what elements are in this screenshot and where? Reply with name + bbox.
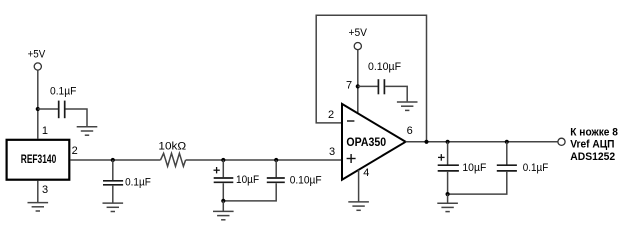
svg-text:0.1µF: 0.1µF xyxy=(50,86,77,98)
wire: tap to C1 left plate xyxy=(38,108,58,110)
+5V terminal (left) xyxy=(34,63,41,70)
wire: stem to C2 xyxy=(112,160,114,180)
svg-text:4: 4 xyxy=(363,167,369,179)
capacitor C6 10uF polarized (output) xyxy=(438,164,459,166)
wire: pin 4 to ground xyxy=(358,170,360,202)
ground G1 xyxy=(77,127,98,135)
svg-text:ADS1252: ADS1252 xyxy=(570,151,615,163)
svg-text:+5V: +5V xyxy=(349,27,368,39)
node: pin 7 bypass tap xyxy=(356,84,360,88)
wire: resistor to op-amp pin 3 xyxy=(186,159,342,161)
wire: stem to C3 xyxy=(222,160,224,177)
wire: stem to C7 xyxy=(506,142,508,165)
ground G3 xyxy=(103,203,124,211)
svg-text:2: 2 xyxy=(72,145,78,157)
ground G7 xyxy=(437,203,458,211)
node: junction at C5 xyxy=(274,158,278,162)
svg-text:10kΩ: 10kΩ xyxy=(158,141,186,153)
capacitor C4 0.10uF (op-amp bypass) xyxy=(377,79,379,94)
capacitor C2 0.1uF xyxy=(103,180,123,182)
wire: C2 bottom to ground xyxy=(112,186,114,203)
ground G6 xyxy=(348,202,369,210)
svg-text:0.1µF: 0.1µF xyxy=(523,162,549,174)
+5V terminal (op-amp) xyxy=(354,43,361,50)
wire: bottom rail to ground xyxy=(447,194,449,203)
op-amp U2 OPA350 xyxy=(342,104,406,180)
svg-text:Vref АЦП: Vref АЦП xyxy=(570,139,614,151)
REF3140 U1 xyxy=(7,140,70,180)
svg-text:+5V: +5V xyxy=(28,48,46,60)
wire: stem to C5 xyxy=(275,160,277,177)
node: feedback junction xyxy=(424,140,428,144)
node: junction at C2 xyxy=(111,158,115,162)
wire: output rail xyxy=(406,141,558,143)
node: junction at C3 xyxy=(221,158,225,162)
plus mark (non-inverting input) xyxy=(347,154,356,163)
svg-text:7: 7 xyxy=(346,80,352,92)
svg-text:OPA350: OPA350 xyxy=(346,137,386,149)
svg-text:REF3140: REF3140 xyxy=(21,154,57,166)
plus mark C3 xyxy=(214,167,220,173)
node: junction at C7 xyxy=(505,140,509,144)
svg-text:1: 1 xyxy=(42,125,48,137)
minus mark (inverting input) xyxy=(347,120,354,122)
wire: tap to C4 xyxy=(358,85,378,87)
svg-text:0.10µF: 0.10µF xyxy=(290,174,322,186)
node: bypass cap tap xyxy=(36,107,40,111)
capacitor C5 0.10uF xyxy=(267,177,285,179)
svg-text:3: 3 xyxy=(42,184,48,196)
wire: bottom rail to ground xyxy=(222,201,224,211)
wire: +5V down to REF3140 pin 1 xyxy=(37,70,39,138)
svg-text:3: 3 xyxy=(329,146,335,158)
node: junction at C6 xyxy=(446,140,450,144)
svg-text:0.1µF: 0.1µF xyxy=(125,177,151,189)
wire: REF3140 pin 2 output rail to resistor xyxy=(70,159,160,161)
node: output bottom rail junction xyxy=(446,192,450,196)
capacitor C3 10uF polarized xyxy=(214,177,234,179)
plus mark C6 xyxy=(438,154,445,161)
svg-text:6: 6 xyxy=(407,125,413,137)
svg-text:0.10µF: 0.10µF xyxy=(368,61,401,73)
svg-text:10µF: 10µF xyxy=(462,162,486,174)
wire: C3 bottom to bottom rail xyxy=(222,183,224,201)
resistor R1 10k xyxy=(161,153,186,166)
svg-text:10µF: 10µF xyxy=(236,174,259,186)
wire: pin 3 to ground xyxy=(37,181,39,203)
node: bottom rail junction xyxy=(221,199,225,203)
wire: feedback loop from output to inverting input xyxy=(316,15,426,142)
wire: C4 to ground xyxy=(385,86,407,101)
svg-text:К ножке 8: К ножке 8 xyxy=(570,126,618,138)
wire: C5 bottom + bottom rail to C3 xyxy=(223,183,276,201)
ground G2 xyxy=(28,203,49,211)
wire: C1 right plate to ground xyxy=(66,109,88,126)
svg-text:2: 2 xyxy=(328,109,334,121)
capacitor C1 0.1uF (REF3140 supply bypass) xyxy=(58,101,60,119)
capacitor C7 0.1uF (output) xyxy=(497,164,517,166)
wire: C7 bottom + bottom rail to C6 xyxy=(448,172,507,194)
wire: stem to C6 xyxy=(447,142,449,165)
wire: +5V to op-amp pin 7 xyxy=(357,50,359,113)
output terminal xyxy=(558,138,565,145)
ground G4 xyxy=(213,211,234,219)
ground G5 xyxy=(397,102,418,110)
wire: C6 bottom to bottom rail xyxy=(447,172,449,194)
net label: K nozhke 8 Vref ACP ADS1252 xyxy=(570,126,618,163)
